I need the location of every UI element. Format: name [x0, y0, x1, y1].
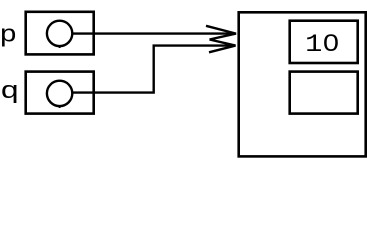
svg-text:q: q: [0, 79, 19, 106]
wire: q pointer line with riser: [72, 46, 235, 93]
svg-text:p: p: [0, 23, 17, 50]
object box (heap object): [239, 12, 366, 156]
arrowhead of q pointer: [209, 40, 236, 53]
variable box q: [26, 72, 94, 114]
wire: p pointer line: [72, 32, 235, 34]
field box with value 10: [290, 21, 358, 63]
pointer dot circle in q box: [47, 81, 72, 106]
cover dot of Liberation Mono zero: [329, 40, 334, 45]
tick below q circle: [59, 106, 61, 108]
svg-text:10: 10: [305, 30, 339, 59]
empty field box: [290, 72, 358, 114]
arrowhead of p pointer: [206, 26, 236, 40]
pointer dot circle in p box: [47, 21, 72, 46]
variable box p: [26, 12, 94, 55]
tick below p circle: [59, 46, 61, 48]
